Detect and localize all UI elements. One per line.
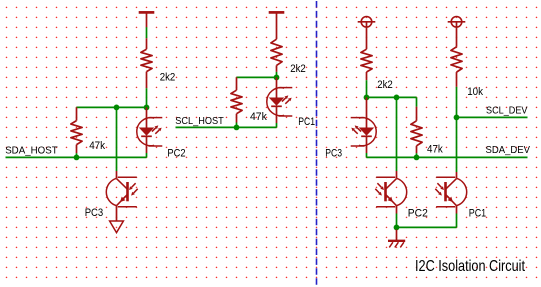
opto-coupler phototransistor PC3	[106, 171, 137, 214]
resistor 2k2 (SDA dev pull-up)	[361, 49, 372, 80]
net label SDA_HOST	[5, 145, 58, 157]
wire	[146, 88, 148, 107]
svg-text:I2C Isolation Circuit: I2C Isolation Circuit	[415, 258, 525, 275]
wire	[76, 153, 78, 157]
svg-text:PC1: PC1	[469, 208, 487, 220]
svg-text:PC1: PC1	[298, 116, 315, 128]
net SDA_DEV wire	[367, 156, 528, 158]
svg-text:47k: 47k	[89, 140, 105, 152]
name label PC1	[469, 208, 487, 220]
wire	[396, 214, 398, 228]
power +V circle symbol (SCL dev pull-up)	[448, 17, 466, 47]
resistor 47k (SCL host)	[231, 77, 242, 122]
name label PC2	[167, 147, 185, 159]
wire	[416, 97, 418, 106]
svg-text:47k: 47k	[250, 111, 267, 123]
svg-text:SDA_HOST: SDA_HOST	[5, 145, 58, 157]
wire	[236, 123, 238, 128]
wire	[456, 87, 458, 118]
opto-coupler LED PC3 (dev side)	[351, 97, 377, 153]
svg-text:PC3: PC3	[85, 207, 104, 219]
opto-coupler LED PC2	[137, 107, 163, 153]
opto-coupler LED PC1	[267, 77, 293, 123]
junction	[234, 125, 240, 131]
wire	[237, 76, 277, 78]
svg-text:2k2: 2k2	[377, 79, 393, 91]
junction	[114, 105, 120, 111]
wire	[366, 80, 368, 97]
net label SCL_DEV	[486, 105, 528, 117]
net label SCL_HOST	[175, 115, 224, 127]
resistor 2k2 (SDA host pull-up)	[141, 38, 152, 88]
wire	[146, 153, 148, 157]
net SCL_DEV wire	[457, 116, 528, 118]
opto-coupler phototransistor PC2 (dev side)	[375, 171, 406, 214]
name label PC2	[408, 208, 428, 220]
wire	[456, 214, 458, 228]
wire	[456, 117, 458, 172]
wire	[146, 27, 148, 38]
wire	[396, 97, 398, 171]
svg-text:PC2: PC2	[167, 147, 185, 159]
net label SDA_DEV	[486, 144, 531, 156]
ground (chassis) symbol	[388, 230, 405, 248]
value label 2k2	[160, 72, 176, 84]
resistor 47k (SDA dev)	[411, 107, 422, 154]
svg-text:SCL_DEV: SCL_DEV	[486, 105, 528, 117]
resistor 2k2 (SCL host pull-up)	[271, 27, 282, 72]
value label 47k	[427, 144, 443, 156]
wire	[116, 214, 118, 222]
value label 47k	[89, 140, 105, 152]
wire	[77, 106, 147, 108]
wire	[116, 107, 118, 171]
junction	[394, 225, 400, 231]
svg-text:PC2: PC2	[408, 208, 428, 220]
svg-text:10k: 10k	[467, 86, 483, 98]
net SCL_HOST wire	[176, 126, 277, 128]
svg-text:2k2: 2k2	[160, 72, 176, 84]
power +V circle symbol (SDA dev pull-up)	[358, 17, 376, 50]
junction	[74, 155, 80, 161]
value label 47k	[250, 111, 267, 123]
svg-text:SCL_HOST: SCL_HOST	[175, 115, 224, 127]
value label 2k2	[290, 63, 306, 75]
opto-coupler phototransistor PC1 (dev side)	[435, 172, 466, 214]
ground (open triangle)	[110, 221, 124, 233]
junction	[364, 95, 370, 101]
wire	[416, 153, 418, 157]
svg-text:PC3: PC3	[325, 147, 342, 159]
power VCC symbol (SCL host pull-up)	[269, 12, 285, 27]
junction	[454, 115, 460, 121]
junction	[414, 155, 420, 161]
name label PC3	[325, 147, 342, 159]
net SDA_HOST wire	[6, 156, 147, 158]
name label PC3	[85, 207, 104, 219]
value label 2k2	[377, 79, 393, 91]
power VCC symbol (SDA host pull-up)	[139, 12, 155, 27]
name label PC1	[298, 116, 315, 128]
resistor 10k (SCL dev pull-up)	[451, 47, 462, 87]
junction	[274, 75, 280, 81]
wire	[276, 72, 278, 78]
junction	[144, 105, 150, 111]
svg-text:2k2: 2k2	[290, 63, 306, 75]
value label 10k	[467, 86, 483, 98]
svg-text:SDA_DEV: SDA_DEV	[486, 144, 531, 156]
isolation boundary (dashed line)	[316, 1, 318, 287]
wire	[397, 226, 457, 228]
wire	[366, 153, 368, 157]
resistor 47k (SDA host)	[71, 107, 82, 153]
svg-text:47k: 47k	[427, 144, 443, 156]
wire	[367, 96, 417, 98]
wire	[276, 123, 278, 127]
junction	[394, 95, 400, 101]
title text	[415, 258, 525, 275]
